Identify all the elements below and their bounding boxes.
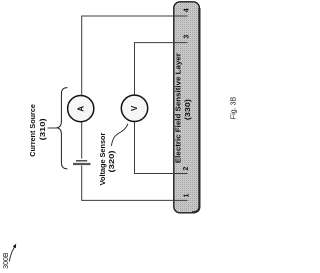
svg-text:(320): (320) <box>109 151 116 173</box>
svg-text:A: A <box>77 106 86 112</box>
svg-text:Electric Field Sensitive Layer: Electric Field Sensitive Layer <box>176 53 183 163</box>
svg-text:3: 3 <box>184 35 191 39</box>
svg-text:2: 2 <box>183 166 190 170</box>
svg-text:4: 4 <box>183 8 190 12</box>
svg-text:1: 1 <box>184 193 191 197</box>
svg-text:(330): (330) <box>185 99 192 120</box>
svg-text:Current Source: Current Source <box>30 104 37 157</box>
svg-text:Fig. 3B: Fig. 3B <box>228 97 237 120</box>
svg-text:Voltage Sensor: Voltage Sensor <box>100 132 107 185</box>
svg-text:300B: 300B <box>1 252 10 268</box>
svg-text:(310): (310) <box>40 118 47 140</box>
svg-text:V: V <box>130 105 139 111</box>
